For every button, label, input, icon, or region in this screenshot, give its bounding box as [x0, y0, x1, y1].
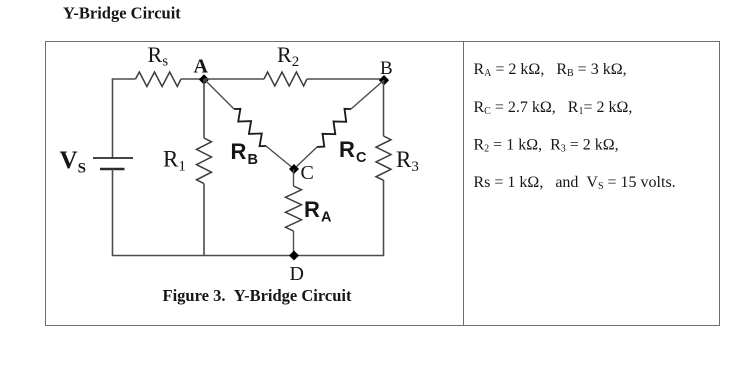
wire: from R1 down to bottom rail [203, 184, 205, 256]
svg-text:B: B [248, 152, 258, 168]
resistor R1 zigzag [197, 138, 212, 184]
svg-text:R2 = 1 kΩ, R3 = 2 kΩ,: R2 = 1 kΩ, R3 = 2 kΩ, [474, 136, 619, 154]
resistor RC squiggle [317, 109, 351, 147]
svg-text:A: A [321, 210, 332, 226]
resistor RA zigzag [286, 186, 302, 231]
svg-text:R: R [339, 137, 355, 162]
wire: from RA down to node D [293, 231, 295, 256]
resistor RB squiggle [234, 109, 266, 146]
svg-text:RC = 2.7 kΩ, R1= 2 kΩ,: RC = 2.7 kΩ, R1= 2 kΩ, [474, 99, 633, 117]
wire: from node A down to R1 [203, 79, 205, 138]
svg-text:R: R [231, 139, 247, 164]
resistor Rs zigzag [136, 72, 182, 87]
svg-text:R1: R1 [163, 147, 186, 175]
wire: left vertical from top-left corner down to battery top plate [112, 79, 114, 158]
svg-text:R2: R2 [277, 42, 299, 70]
node B junction dot [379, 75, 389, 85]
svg-text:Figure 3. Y-Bridge Circuit: Figure 3. Y-Bridge Circuit [163, 286, 352, 305]
wire: from node C down to RA [293, 169, 295, 186]
svg-text:VS: VS [60, 147, 86, 177]
svg-text:RA = 2 kΩ, RB = 3 kΩ,: RA = 2 kΩ, RB = 3 kΩ, [474, 61, 627, 79]
svg-text:R3: R3 [396, 147, 419, 175]
wire: left vertical from battery bottom plate to bottom rail [112, 169, 114, 256]
node A junction dot [199, 74, 209, 84]
svg-text:C: C [356, 150, 367, 166]
node C junction dot [289, 164, 299, 174]
wire: top rail from R2 to node B [307, 78, 384, 80]
wire: from node B down to R3 [383, 80, 385, 136]
wire: top rail from corner to Rs [112, 78, 136, 80]
node D junction dot [289, 251, 299, 261]
svg-text:A: A [194, 55, 209, 77]
svg-text:D: D [290, 263, 304, 285]
wire: top rail from Rs to node A [181, 78, 204, 80]
wire: diagonal from node B to resistor RC [351, 80, 384, 109]
svg-text:R: R [304, 197, 320, 222]
wire: from RC to node C [294, 147, 317, 169]
resistor R2 zigzag [264, 72, 307, 86]
wire: from RB to node C [266, 146, 294, 169]
wire: from R3 down to bottom rail [383, 180, 385, 256]
svg-text:C: C [301, 162, 314, 184]
svg-text:Rs = 1 kΩ, and VS = 15 volt: Rs = 1 kΩ, and VS = 15 volts. [474, 174, 676, 192]
bottom rail wire [112, 255, 385, 257]
resistor R3 zigzag [376, 136, 391, 180]
svg-text:Y-Bridge Circuit: Y-Bridge Circuit [63, 4, 181, 23]
battery source Vs plates [93, 158, 133, 169]
svg-text:Rs: Rs [148, 42, 169, 70]
wire: diagonal from node A to resistor RB [204, 79, 234, 109]
wire: top rail from node A to R2 [204, 78, 264, 80]
svg-text:B: B [380, 58, 393, 79]
